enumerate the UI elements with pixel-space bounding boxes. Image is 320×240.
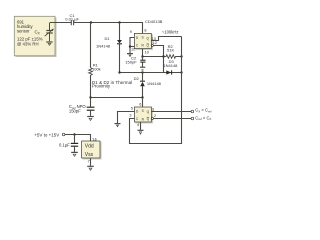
- ground (C2): [140, 67, 145, 70]
- wire R1 node to D2 node: [91, 97, 143, 99]
- wire pin10 node to R2 node: [143, 56, 164, 58]
- svg-text:100k: 100k: [92, 66, 101, 71]
- svg-text:7: 7: [88, 159, 90, 163]
- capacitor 0.1uF: [59, 135, 78, 152]
- resistor R2: [164, 44, 182, 59]
- svg-text:11: 11: [131, 48, 135, 52]
- pin 1 output wire: [151, 111, 191, 113]
- flip-flop U1b (CD4013B): [135, 107, 154, 124]
- svg-text:3: 3: [129, 114, 131, 118]
- svg-text:sensor: sensor: [17, 29, 30, 34]
- svg-text:CX > Cref: CX > Cref: [195, 108, 211, 114]
- svg-text:51K: 51K: [167, 47, 174, 52]
- sensor box (691 humidity sensor): [14, 16, 56, 57]
- ground (sensor CX): [46, 42, 52, 45]
- svg-text:CX: CX: [35, 30, 41, 36]
- svg-text:1N4148: 1N4148: [147, 81, 162, 86]
- ground (pins 9/11): [127, 54, 133, 57]
- svg-text:~100kHz: ~100kHz: [162, 29, 179, 34]
- node junction top rail / R1: [90, 21, 92, 23]
- pin 13 wire: [151, 37, 181, 41]
- wire right rail: [130, 37, 182, 144]
- supply box Vdd/Vss: [82, 141, 102, 160]
- diode D1: [96, 23, 122, 73]
- svg-text:5: 5: [131, 106, 133, 110]
- svg-text:Proximity: Proximity: [92, 84, 111, 89]
- svg-text:4: 4: [137, 123, 139, 127]
- svg-text:1N4148: 1N4148: [163, 63, 178, 68]
- diode D3: [163, 59, 181, 74]
- resistor R1: [89, 23, 101, 98]
- node junction top rail / D1: [118, 21, 120, 23]
- ground (0.1uF): [71, 152, 78, 156]
- svg-text:0.1µF: 0.1µF: [59, 142, 70, 147]
- svg-text:D2: D2: [134, 76, 140, 81]
- pin 9 wire: [130, 38, 134, 54]
- ground (pin 4): [138, 130, 144, 134]
- svg-text:0.01 µF: 0.01 µF: [65, 16, 79, 21]
- svg-text:150pF: 150pF: [69, 109, 81, 114]
- wire mid rail: [120, 72, 164, 74]
- terminal Cx>Cref: [191, 110, 194, 113]
- pin 10 wire: [142, 49, 144, 57]
- pin 6 wire: [142, 98, 144, 108]
- capacitor C2: [125, 56, 145, 67]
- svg-text:D1: D1: [105, 36, 111, 41]
- flip-flop U1a (CD4013B): [134, 33, 153, 50]
- svg-text:1: 1: [152, 108, 154, 112]
- svg-text:+5V to +15V: +5V to +15V: [34, 132, 59, 137]
- pin 7 wire: [90, 158, 92, 166]
- capacitor CX (variable): [45, 23, 54, 41]
- pin 2 output wire: [152, 118, 154, 120]
- capacitor Cref: [69, 98, 95, 116]
- ground (pin 5): [115, 124, 121, 127]
- svg-text:Vdd: Vdd: [85, 143, 94, 149]
- wire supply: [65, 135, 91, 142]
- wire top rail: [50, 23, 143, 34]
- svg-text:6: 6: [139, 103, 141, 107]
- diode D2: [134, 73, 162, 98]
- svg-text:10: 10: [145, 51, 149, 55]
- svg-text:1N4148: 1N4148: [96, 44, 111, 49]
- svg-text:@ 43% RH: @ 43% RH: [17, 41, 39, 46]
- terminal Cref>Cx: [191, 117, 194, 120]
- svg-text:150pF: 150pF: [125, 59, 137, 64]
- capacitor C1: [71, 20, 73, 25]
- svg-text:2: 2: [154, 114, 156, 118]
- svg-text:Vss: Vss: [85, 152, 94, 158]
- pin 5 wire: [118, 112, 135, 124]
- svg-text:8: 8: [144, 28, 146, 32]
- pin 12 wire: [151, 45, 153, 47]
- svg-text:S: S: [142, 36, 144, 40]
- svg-text:12: 12: [153, 41, 157, 45]
- svg-text:Cref > CX: Cref > CX: [195, 115, 211, 121]
- svg-text:S: S: [142, 109, 144, 113]
- pin 4 wire: [140, 122, 142, 130]
- ground (pin 7): [87, 166, 94, 170]
- svg-text:9: 9: [130, 30, 132, 34]
- pin 11 wire: [130, 46, 134, 48]
- svg-text:CD4013B: CD4013B: [145, 19, 163, 24]
- ground (Cref): [87, 117, 94, 121]
